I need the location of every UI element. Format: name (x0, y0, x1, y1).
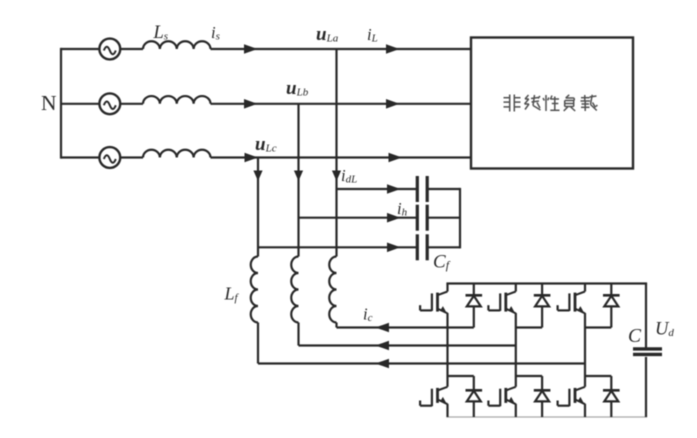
diode D6 (bottom freewheel) (603, 376, 620, 417)
svg-text:iL: iL (367, 25, 378, 45)
arrow ih (387, 213, 401, 223)
wire branch 2 to Cf (299, 217, 417, 219)
transistor Q4 (bottom IGBT) (488, 376, 515, 417)
arrow iL phase a (386, 44, 400, 54)
wire branch 3 to Cf (258, 246, 416, 248)
wire bus to source Vc (61, 156, 99, 158)
wire drop from uLc (257, 158, 259, 257)
svg-text:ih: ih (397, 199, 408, 219)
arrow branch 3 (387, 243, 401, 253)
arrow ic output3 (376, 359, 390, 369)
AC source Vb (99, 93, 120, 114)
arrow is phase c (245, 153, 259, 163)
wire branch 3 cap to bus (428, 246, 460, 248)
AC source Vc (99, 147, 120, 168)
label nonlinear load (hand-drawn CJK) (509, 95, 511, 112)
svg-text:Ls: Ls (153, 23, 169, 43)
diode D4 (bottom freewheel) (534, 376, 551, 417)
arrow idL (387, 184, 401, 194)
svg-text:Lf: Lf (224, 284, 240, 305)
svg-text:Ud: Ud (655, 320, 674, 340)
wire branch 2 cap to bus (428, 217, 460, 219)
wire dc bus right vertical upper (645, 284, 647, 349)
capacitor Cf1 (filter cap) (417, 176, 427, 202)
arrow ic output2 (376, 341, 390, 351)
wire drop from uLa (335, 49, 337, 257)
wire neutral bus (60, 48, 62, 159)
diode D1 (top freewheel) (466, 284, 483, 328)
transistor Q3 (top IGBT) (488, 284, 515, 328)
transistor Q6 (bottom IGBT) (558, 376, 585, 417)
diode D5 (top freewheel) (603, 284, 620, 328)
wire coil3 tail (335, 323, 337, 328)
inductor Lf phase b leg (291, 257, 298, 323)
transistor Q2 (bottom IGBT) (420, 376, 447, 417)
wire output 3 (to leg3) (258, 362, 585, 364)
nonlinear load box (471, 38, 633, 169)
inductor Lf phase c leg (251, 257, 258, 323)
inductor Lf phase a leg (329, 257, 336, 323)
diode D2 (bottom freewheel) (466, 376, 483, 417)
arrow ic output1 (376, 323, 390, 333)
svg-text:ic: ic (363, 305, 373, 325)
diode D3 (top freewheel) (534, 284, 551, 328)
wire bus to source Vb (61, 103, 99, 105)
wire phase c to load (211, 156, 472, 158)
wire leg3 mid vertical (584, 328, 586, 377)
svg-text:N: N (41, 91, 57, 115)
wire leg2 node horizontal (516, 326, 542, 328)
inductor Ls phase c (143, 150, 211, 158)
wire phase b to load (211, 103, 472, 105)
wire leg1 mid vertical (446, 328, 448, 377)
capacitor C dc link (633, 347, 662, 350)
wire coil1 tail (257, 323, 259, 364)
inductor Ls phase b (143, 96, 211, 104)
capacitor Cf2 (filter cap) (417, 205, 427, 231)
wire coil2 tail (297, 323, 299, 346)
wire output 1 (to leg1 node) (337, 326, 474, 328)
arrow is phase a (244, 44, 258, 54)
wire branch 1 cap to bus (428, 188, 460, 190)
svg-text:uLb: uLb (286, 78, 309, 99)
svg-text:uLa: uLa (316, 24, 339, 45)
inductor Ls phase a (143, 41, 211, 49)
wire leg3 node horizontal (585, 326, 611, 328)
wire leg2 mid vertical (515, 328, 517, 377)
svg-text:is: is (211, 23, 220, 43)
wire output 2 (to leg2) (299, 344, 516, 346)
wire leg2 bottom jog (516, 375, 542, 377)
wire cap bank right bus (459, 188, 461, 249)
wire dc top bus (446, 282, 647, 284)
wire dc bottom bus (446, 416, 647, 418)
AC source Va (99, 39, 120, 60)
svg-text:idL: idL (341, 166, 357, 186)
svg-text:uLc: uLc (255, 134, 277, 155)
arrow drop a (332, 171, 341, 182)
transistor Q5 (top IGBT) (558, 284, 585, 328)
wire source Vb to inductor (120, 103, 143, 105)
arrow drop b (294, 171, 303, 182)
svg-text:Cf: Cf (433, 252, 451, 273)
arrow drop c (253, 171, 262, 182)
capacitor Cf3 (filter cap) (417, 234, 427, 260)
wire bus to source Va (61, 48, 99, 50)
wire source Vc to inductor (120, 156, 143, 158)
wire leg1 bottom jog (448, 375, 474, 377)
wire drop from uLb (297, 104, 299, 257)
wire dc bus right vertical lower (645, 357, 647, 417)
wire branch 1 to Cf (337, 188, 417, 190)
svg-text:C: C (628, 326, 642, 347)
arrow is phase b (244, 99, 258, 109)
transistor Q1 (top IGBT) (420, 284, 447, 328)
wire phase a to load (211, 48, 472, 50)
arrow iL phase c (389, 153, 403, 163)
wire leg3 bottom jog (585, 375, 611, 377)
arrow iL phase b (386, 99, 400, 109)
wire source Va to inductor (120, 48, 143, 50)
